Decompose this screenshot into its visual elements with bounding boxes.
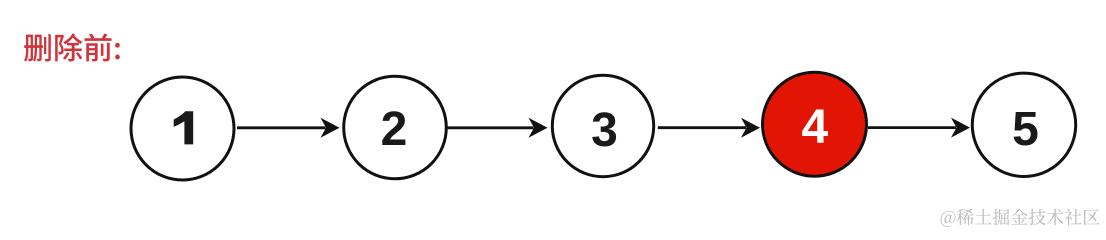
arrow node1->node2 wire: [237, 126, 326, 129]
arrow node2->node3 wire: [448, 126, 534, 129]
watermark char ji: [1029, 209, 1046, 225]
arrow node1->node2 head: [321, 118, 340, 138]
svg-text:4: 4: [802, 101, 829, 154]
svg-text:5: 5: [1012, 103, 1039, 156]
node 4 (red, to delete) circle: [763, 72, 867, 176]
svg-text:2: 2: [381, 103, 408, 156]
watermark char qu: [1084, 209, 1100, 225]
node 3 circle: [552, 75, 653, 176]
svg-text:3: 3: [591, 104, 618, 157]
node 2 circle: [344, 76, 447, 179]
watermark char she: [1065, 209, 1082, 225]
arrow node4->node5 head: [951, 118, 970, 138]
arrow node3->node4 head: [741, 118, 760, 138]
watermark at sign: [941, 211, 956, 227]
title char qian: [85, 34, 112, 62]
arrow node2->node3 head: [529, 118, 548, 138]
watermark char shu: [1047, 209, 1064, 225]
watermark char jue: [993, 209, 1010, 225]
watermark char xi: [957, 209, 974, 226]
watermark char jin: [1011, 209, 1028, 225]
node 1 value label 1: [174, 111, 194, 144]
arrow node3->node4 wire: [658, 126, 746, 129]
node 5 circle: [972, 73, 1075, 176]
node 1 circle: [131, 77, 234, 180]
title char chu: [55, 33, 82, 61]
watermark char tu: [975, 209, 992, 225]
title char shan (delete): [24, 34, 51, 61]
arrow node4->node5 wire: [868, 126, 956, 129]
title colon: [115, 43, 120, 60]
